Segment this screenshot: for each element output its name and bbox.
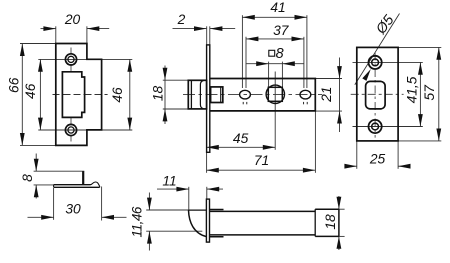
svg-text:8: 8 [20, 174, 35, 182]
svg-text:66: 66 [7, 77, 22, 93]
svg-text:11,46: 11,46 [130, 206, 145, 237]
svg-text:41,5: 41,5 [405, 76, 420, 103]
svg-text:11: 11 [162, 173, 176, 188]
svg-text:41: 41 [270, 0, 285, 15]
svg-text:18: 18 [323, 214, 338, 230]
svg-text:25: 25 [369, 151, 386, 166]
svg-text:2: 2 [177, 12, 186, 27]
svg-text:21: 21 [319, 87, 334, 103]
svg-text:37: 37 [273, 23, 290, 38]
svg-text:30: 30 [65, 201, 81, 216]
svg-text:8: 8 [276, 46, 284, 62]
svg-text:71: 71 [254, 153, 269, 168]
svg-text:18: 18 [151, 86, 166, 102]
svg-text:57: 57 [422, 84, 437, 101]
svg-text:45: 45 [233, 131, 249, 146]
svg-text:46: 46 [23, 83, 38, 99]
svg-text:46: 46 [110, 87, 125, 103]
svg-text:20: 20 [64, 12, 81, 27]
